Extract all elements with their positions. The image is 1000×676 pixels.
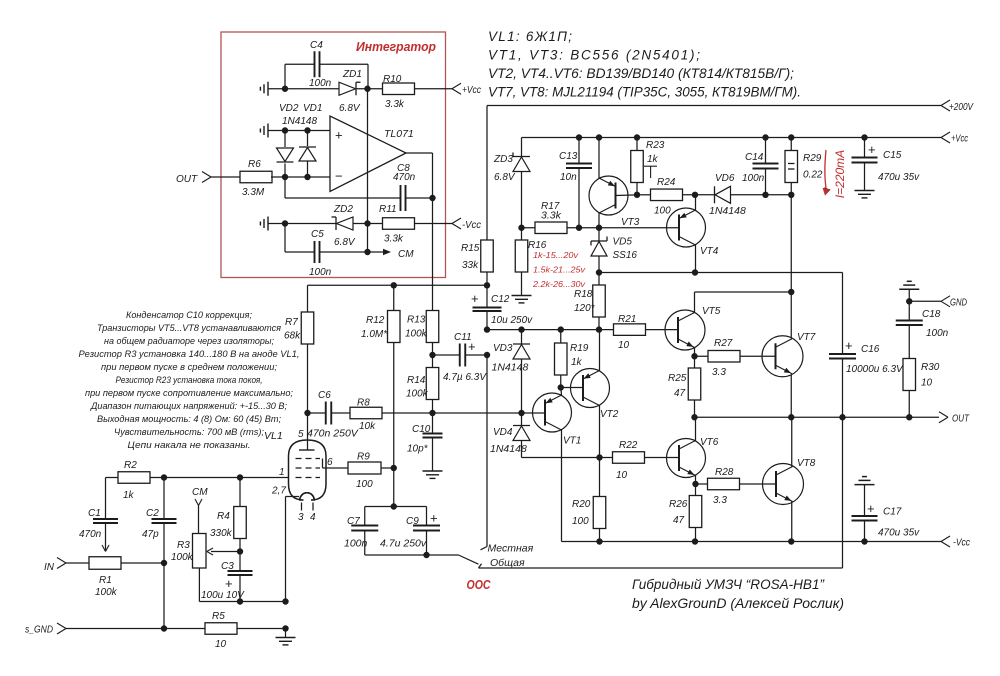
svg-text:10: 10 bbox=[616, 470, 628, 481]
svg-text:ZD2: ZD2 bbox=[333, 204, 353, 215]
svg-text:2,7: 2,7 bbox=[271, 486, 286, 497]
junction bbox=[237, 598, 243, 604]
capacitor C17 bbox=[852, 477, 921, 542]
svg-text:1N4148: 1N4148 bbox=[492, 362, 529, 374]
svg-text:OUT: OUT bbox=[952, 413, 970, 425]
ground (ZD2 row) bbox=[260, 217, 268, 231]
node -Vcc bbox=[941, 536, 971, 549]
svg-text:R13: R13 bbox=[407, 315, 426, 326]
wire +Vcc rail bbox=[522, 137, 942, 139]
transistor VT6 bbox=[667, 417, 719, 484]
svg-text:VD3: VD3 bbox=[493, 343, 513, 354]
svg-text:330k: 330k bbox=[210, 528, 233, 539]
svg-text:R11: R11 bbox=[379, 204, 397, 215]
svg-text:ООС: ООС bbox=[467, 578, 492, 592]
svg-text:I=220mA: I=220mA bbox=[833, 150, 847, 198]
svg-text:R14: R14 bbox=[407, 375, 426, 386]
svg-text:1k: 1k bbox=[647, 154, 659, 165]
svg-text:R10: R10 bbox=[383, 74, 402, 85]
capacitor C12 bbox=[471, 285, 533, 329]
wire +200V rail bbox=[487, 105, 941, 107]
svg-text:s_GND: s_GND bbox=[25, 624, 53, 636]
zener ZD3 bbox=[493, 138, 530, 228]
capacitor C3 bbox=[201, 552, 253, 602]
resistor R6 bbox=[240, 159, 272, 198]
tube grid pin 1 bbox=[279, 467, 285, 478]
svg-text:VT1: VT1 bbox=[563, 436, 581, 447]
zener ZD2 bbox=[332, 204, 356, 248]
wire bbox=[683, 194, 715, 196]
node OUT bbox=[939, 412, 970, 425]
svg-text:VD6: VD6 bbox=[715, 173, 735, 184]
transistor VT1 bbox=[522, 388, 582, 542]
svg-text:10u 250v: 10u 250v bbox=[491, 315, 533, 326]
svg-text:+: + bbox=[225, 576, 233, 591]
svg-text:100k: 100k bbox=[405, 329, 428, 340]
capacitor C18 bbox=[896, 301, 949, 358]
transistor VT2 bbox=[561, 330, 619, 458]
svg-text:+Vcc: +Vcc bbox=[951, 133, 969, 145]
capacitor C11 bbox=[433, 332, 488, 383]
svg-text:ZD3: ZD3 bbox=[493, 154, 513, 165]
svg-text:Транзисторы VТ5...VТ8 устанавл: Транзисторы VТ5...VТ8 устанавливаются bbox=[97, 323, 281, 334]
zener ZD1 bbox=[339, 69, 362, 114]
wire local feedback bbox=[481, 355, 488, 550]
resistor R24 bbox=[637, 177, 683, 217]
svg-text:на общем радиаторе через изоля: на общем радиаторе через изоляторы; bbox=[104, 336, 274, 347]
node CM (input to R3) bbox=[192, 487, 208, 534]
resistor R28 bbox=[696, 467, 740, 506]
svg-text:0.22: 0.22 bbox=[803, 170, 823, 181]
diode VD2 bbox=[277, 103, 299, 177]
svg-text:+200V: +200V bbox=[949, 101, 974, 113]
wire VT3 base row bbox=[567, 227, 679, 229]
potentiometer R3 bbox=[171, 534, 240, 569]
svg-text:R4: R4 bbox=[217, 511, 230, 522]
wire bbox=[356, 88, 383, 90]
svg-text:R2: R2 bbox=[124, 460, 137, 471]
svg-text:VT1, VT3: BC556 (2N5401);: VT1, VT3: BC556 (2N5401); bbox=[488, 48, 700, 63]
svg-text:-Vcc: -Vcc bbox=[462, 219, 482, 231]
svg-text:100k: 100k bbox=[171, 552, 194, 563]
svg-text:ZD1: ZD1 bbox=[342, 69, 362, 80]
resistor R4 bbox=[210, 478, 246, 552]
wire bbox=[211, 176, 240, 178]
wire (global feedback) bbox=[842, 417, 844, 568]
svg-text:1k: 1k bbox=[571, 357, 583, 368]
svg-text:при первом пуске сопротивление: при первом пуске сопротивление максималь… bbox=[85, 388, 293, 399]
current annotation I=220mA bbox=[823, 150, 848, 198]
wire bbox=[486, 272, 488, 285]
svg-text:OUT: OUT bbox=[176, 174, 198, 185]
svg-text:R30: R30 bbox=[921, 362, 940, 373]
junction bbox=[558, 384, 564, 390]
svg-text:R19: R19 bbox=[570, 343, 589, 354]
wire (op-amp output) bbox=[406, 153, 433, 198]
svg-text:470u 35v: 470u 35v bbox=[878, 528, 920, 539]
wire bbox=[238, 628, 286, 630]
svg-text:100n: 100n bbox=[926, 328, 949, 339]
wire bbox=[486, 106, 488, 241]
wire bbox=[381, 467, 394, 469]
svg-text:10: 10 bbox=[618, 340, 630, 351]
junction bbox=[282, 174, 311, 180]
label Общая bbox=[490, 557, 525, 569]
svg-text:Местная: Местная bbox=[488, 543, 534, 555]
capacitor C9 bbox=[365, 507, 440, 556]
svg-text:C10: C10 bbox=[412, 424, 431, 435]
wire bbox=[353, 223, 383, 225]
ground (ZD1 row) bbox=[260, 82, 268, 96]
wire bbox=[740, 355, 775, 357]
svg-text:Общая: Общая bbox=[490, 557, 525, 569]
node -Vcc (integrator) bbox=[452, 218, 482, 231]
junction bbox=[634, 192, 640, 198]
capacitor C10 bbox=[407, 413, 443, 471]
svg-text:47p: 47p bbox=[142, 529, 159, 540]
svg-text:1: 1 bbox=[279, 467, 285, 478]
wire bbox=[415, 223, 453, 225]
svg-text:IN: IN bbox=[44, 562, 55, 573]
tube cathode (pins 2,7) bbox=[271, 486, 299, 602]
svg-text:100: 100 bbox=[356, 479, 373, 490]
svg-text:100n: 100n bbox=[742, 173, 765, 184]
diode VD3 bbox=[492, 330, 531, 413]
tube anode (pin 5) bbox=[298, 413, 315, 450]
wire minus input row bbox=[271, 176, 330, 178]
transistor VT3 bbox=[589, 138, 640, 229]
svg-text:SS16: SS16 bbox=[613, 250, 638, 261]
svg-text:100: 100 bbox=[654, 206, 671, 217]
resistor R25 bbox=[668, 356, 701, 417]
junction bbox=[692, 481, 698, 487]
tube screen pin 6 bbox=[323, 457, 349, 468]
svg-text:4.7u 250v: 4.7u 250v bbox=[380, 538, 427, 550]
schottky VD5 bbox=[591, 228, 637, 273]
svg-text:R20: R20 bbox=[572, 499, 591, 510]
svg-text:+: + bbox=[471, 291, 479, 306]
svg-text:100n: 100n bbox=[344, 538, 368, 550]
svg-text:VD1: VD1 bbox=[303, 103, 322, 114]
potentiometer R1 bbox=[89, 557, 121, 598]
resistor R2 bbox=[106, 460, 151, 501]
junction bbox=[596, 454, 602, 460]
node OUT (left input arrow) bbox=[176, 172, 211, 186]
svg-text:10: 10 bbox=[215, 639, 227, 650]
svg-text:47: 47 bbox=[674, 388, 686, 399]
svg-text:100k: 100k bbox=[95, 587, 118, 598]
svg-text:3.3k: 3.3k bbox=[385, 99, 405, 110]
svg-text:R25: R25 bbox=[668, 373, 687, 384]
svg-text:10000u 6.3V: 10000u 6.3V bbox=[846, 364, 904, 375]
svg-text:VD2: VD2 bbox=[279, 103, 299, 114]
svg-text:R18: R18 bbox=[574, 289, 593, 300]
junction bbox=[304, 410, 310, 416]
svg-text:+: + bbox=[430, 511, 438, 526]
junction bbox=[364, 86, 370, 92]
svg-text:10n: 10n bbox=[560, 172, 577, 183]
svg-text:Интегратор: Интегратор bbox=[356, 39, 436, 54]
resistor R11 bbox=[379, 204, 415, 245]
svg-text:R27: R27 bbox=[714, 338, 733, 349]
svg-text:R22: R22 bbox=[619, 440, 638, 451]
resistor R17 bbox=[522, 201, 568, 234]
svg-text:VT2, VT4..VT6: BD139/BD140 (КТ: VT2, VT4..VT6: BD139/BD140 (КТ814/КТ815В… bbox=[488, 66, 794, 81]
junction bbox=[518, 410, 524, 416]
transistor VT7 bbox=[762, 195, 816, 417]
junction bbox=[691, 414, 912, 420]
svg-text:C13: C13 bbox=[559, 151, 578, 162]
svg-text:4.7µ 6.3V: 4.7µ 6.3V bbox=[443, 372, 487, 383]
svg-text:R23: R23 bbox=[646, 140, 665, 151]
wire bbox=[393, 468, 395, 507]
svg-text:470n: 470n bbox=[393, 172, 416, 183]
junction bbox=[429, 352, 435, 358]
svg-text:10p*: 10p* bbox=[407, 444, 429, 455]
svg-text:C3: C3 bbox=[221, 561, 234, 572]
resistor R8 bbox=[350, 398, 382, 433]
svg-text:VD4: VD4 bbox=[493, 427, 513, 438]
svg-text:6.8V: 6.8V bbox=[339, 103, 361, 114]
svg-text:33k: 33k bbox=[462, 260, 479, 271]
svg-text:470u 35v: 470u 35v bbox=[878, 172, 920, 183]
junction bbox=[518, 225, 524, 231]
svg-text:C6: C6 bbox=[318, 390, 331, 401]
ground (C15) bbox=[855, 191, 875, 198]
node CM (output arrow) bbox=[368, 249, 415, 260]
junction bbox=[161, 560, 167, 566]
svg-text:Резистор R23 установка тока по: Резистор R23 установка тока покоя, bbox=[116, 375, 263, 386]
tube heater pins 3 4 bbox=[298, 503, 316, 524]
svg-text:TL071: TL071 bbox=[384, 128, 414, 140]
ground (input) bbox=[276, 629, 296, 645]
svg-text:6: 6 bbox=[327, 457, 333, 468]
integrator box frame bbox=[221, 32, 446, 278]
wire bbox=[645, 457, 680, 459]
junction bbox=[282, 598, 288, 631]
resistor R10 bbox=[383, 74, 415, 110]
wire B+ row bbox=[308, 284, 488, 286]
label ООС bbox=[467, 578, 492, 592]
integrator title label bbox=[356, 39, 436, 54]
svg-text:R8: R8 bbox=[357, 398, 370, 409]
svg-text:VT6: VT6 bbox=[700, 437, 719, 448]
junction bbox=[423, 552, 429, 558]
svg-text:GND: GND bbox=[950, 297, 967, 309]
svg-text:3.3: 3.3 bbox=[713, 495, 727, 506]
svg-text:3.3M: 3.3M bbox=[242, 187, 265, 198]
svg-text:Конденсатор С10 коррекция;: Конденсатор С10 коррекция; bbox=[126, 310, 252, 321]
diode VD6 bbox=[709, 173, 791, 217]
junction bbox=[391, 282, 491, 288]
svg-text:R12: R12 bbox=[366, 315, 385, 326]
svg-text:6.8V: 6.8V bbox=[494, 172, 516, 183]
capacitor C16 bbox=[829, 273, 904, 418]
node IN bbox=[44, 558, 89, 574]
svg-text:+: + bbox=[845, 338, 853, 353]
svg-text:R15: R15 bbox=[461, 243, 480, 254]
svg-text:CM: CM bbox=[398, 249, 414, 260]
capacitor C5 bbox=[285, 224, 368, 279]
svg-text:R3: R3 bbox=[177, 540, 190, 551]
junction bbox=[576, 225, 602, 231]
svg-text:by AlexGrounD (Алексей Рослик): by AlexGrounD (Алексей Рослик) bbox=[632, 596, 844, 611]
svg-text:470n 250V: 470n 250V bbox=[307, 428, 359, 440]
diode VD4 bbox=[490, 413, 613, 458]
transistor VT5 bbox=[665, 292, 791, 356]
svg-text:R24: R24 bbox=[657, 177, 676, 188]
svg-text:1N4148: 1N4148 bbox=[709, 205, 746, 217]
resistor R19 bbox=[555, 330, 589, 388]
node +Vcc (integrator) bbox=[452, 83, 482, 96]
svg-text:Гибридный УМЗЧ “ROSA-HB1”: Гибридный УМЗЧ “ROSA-HB1” bbox=[632, 577, 825, 592]
svg-text:10k: 10k bbox=[359, 421, 376, 432]
svg-text:C12: C12 bbox=[491, 294, 510, 305]
svg-text:2.2k-26...30v: 2.2k-26...30v bbox=[532, 280, 586, 289]
svg-text:3.3k: 3.3k bbox=[384, 234, 404, 245]
svg-text:Выходная мощность: 4 (8) Ом: 6: Выходная мощность: 4 (8) Ом: 60 (45) Вт; bbox=[97, 414, 281, 425]
svg-text:100n: 100n bbox=[309, 78, 332, 89]
capacitor C4 bbox=[285, 40, 368, 89]
svg-text:при первом пуске в среднем пол: при первом пуске в среднем положении; bbox=[101, 362, 277, 373]
svg-text:C9: C9 bbox=[406, 516, 419, 527]
svg-text:1N4148: 1N4148 bbox=[490, 443, 527, 455]
svg-text:+: + bbox=[468, 339, 476, 354]
junction bbox=[576, 134, 868, 140]
wire global feedback line bbox=[479, 564, 843, 568]
junction bbox=[391, 503, 397, 509]
junction bbox=[282, 86, 288, 92]
svg-text:100n: 100n bbox=[309, 267, 332, 278]
node +200V bbox=[941, 100, 974, 113]
junction bbox=[691, 289, 794, 360]
capacitor C2 bbox=[142, 478, 177, 564]
svg-text:C18: C18 bbox=[922, 309, 941, 320]
resistor R26 bbox=[669, 484, 702, 542]
parts list text bbox=[488, 29, 801, 100]
svg-text:C7: C7 bbox=[347, 516, 360, 527]
wire bbox=[415, 88, 453, 90]
svg-text:R29: R29 bbox=[803, 153, 822, 164]
label Местная bbox=[488, 543, 534, 555]
svg-text:3.3: 3.3 bbox=[712, 367, 726, 378]
diode VD1 bbox=[282, 103, 322, 177]
junction bbox=[282, 220, 288, 226]
resistor R12 bbox=[361, 285, 400, 467]
svg-text:C4: C4 bbox=[310, 40, 323, 51]
svg-text:C14: C14 bbox=[745, 152, 764, 163]
junction bbox=[596, 269, 698, 275]
capacitor C15 bbox=[852, 138, 921, 191]
svg-text:100: 100 bbox=[572, 516, 589, 527]
svg-text:−: − bbox=[335, 169, 343, 184]
junction bbox=[391, 465, 397, 471]
svg-text:100k: 100k bbox=[406, 389, 429, 400]
junction bbox=[429, 195, 435, 201]
notes text bbox=[79, 310, 300, 451]
svg-text:1N4148: 1N4148 bbox=[282, 116, 317, 127]
capacitor C14 bbox=[742, 138, 779, 195]
svg-text:Резистор R3 установка 140...18: Резистор R3 установка 140...180 В на ано… bbox=[79, 349, 300, 360]
svg-text:VT7: VT7 bbox=[797, 332, 816, 343]
wire bbox=[646, 329, 679, 331]
svg-text:3: 3 bbox=[298, 512, 304, 523]
junction bbox=[692, 192, 698, 198]
capacitor C13 bbox=[559, 138, 592, 228]
svg-text:1.0M*: 1.0M* bbox=[361, 329, 388, 340]
svg-text:68k: 68k bbox=[284, 331, 301, 342]
wire anode/bias rail bbox=[487, 329, 614, 331]
svg-text:Диапазон питающих напряжений:: Диапазон питающих напряжений: +-15...30 … bbox=[90, 401, 287, 412]
wire bbox=[268, 223, 336, 225]
junction bbox=[429, 410, 435, 416]
wire grid row bbox=[150, 477, 289, 479]
svg-text:R1: R1 bbox=[99, 575, 112, 586]
svg-text:VT8: VT8 bbox=[797, 458, 816, 469]
resistor R27 bbox=[695, 338, 741, 378]
capacitor C6 bbox=[307, 390, 359, 440]
svg-text:R6: R6 bbox=[248, 159, 261, 170]
node GND bbox=[899, 281, 967, 308]
tube grids bbox=[296, 459, 323, 478]
wire bbox=[240, 601, 286, 603]
svg-text:-Vcc: -Vcc bbox=[953, 537, 971, 549]
transistor VT4 bbox=[667, 195, 719, 273]
node s_GND bbox=[25, 623, 205, 636]
wire bbox=[163, 563, 165, 629]
resistor R13 bbox=[405, 198, 439, 355]
svg-text:+: + bbox=[335, 128, 343, 143]
svg-text:5: 5 bbox=[298, 429, 304, 440]
junction bbox=[596, 538, 867, 544]
ground (R16) bbox=[512, 296, 532, 303]
op-amp U1 TL071 bbox=[330, 116, 414, 192]
resistor R7 bbox=[284, 285, 314, 413]
tube VL1 envelope bbox=[264, 430, 326, 500]
wire R3 bottom bbox=[199, 568, 240, 602]
trimmer R23 bbox=[631, 138, 665, 195]
ground (op-amp + input) bbox=[260, 124, 268, 138]
node +Vcc bbox=[941, 132, 969, 145]
svg-text:1.5k-21...25v: 1.5k-21...25v bbox=[533, 266, 586, 275]
svg-text:VT3: VT3 bbox=[621, 217, 640, 228]
svg-text:1k-15...20v: 1k-15...20v bbox=[533, 251, 579, 260]
wire OUT rail bbox=[695, 416, 940, 418]
junction bbox=[364, 249, 370, 255]
svg-text:R9: R9 bbox=[357, 452, 370, 463]
svg-text:VT2: VT2 bbox=[600, 409, 619, 420]
wire (op-amp supply vertical) bbox=[367, 89, 369, 252]
svg-text:CM: CM bbox=[192, 487, 208, 498]
svg-text:R26: R26 bbox=[669, 499, 688, 510]
wire plus input row bbox=[268, 130, 330, 132]
resistor R18 bbox=[574, 273, 605, 330]
resistor R9 bbox=[348, 452, 381, 491]
wire bbox=[382, 412, 522, 414]
resistor R14 bbox=[406, 355, 439, 413]
svg-text:C17: C17 bbox=[883, 507, 902, 518]
junction bbox=[484, 352, 490, 358]
svg-text:C5: C5 bbox=[311, 229, 324, 240]
transistor VT8 bbox=[763, 417, 816, 541]
svg-text:Цепи накала не показаны.: Цепи накала не показаны. bbox=[128, 440, 251, 451]
resistor R15 bbox=[461, 240, 493, 272]
svg-text:120*: 120* bbox=[574, 303, 596, 314]
svg-text:Чувствительность: 700 мВ (rms): Чувствительность: 700 мВ (rms); bbox=[114, 427, 264, 438]
svg-text:+: + bbox=[868, 142, 876, 157]
switch (NFB select) bbox=[427, 555, 479, 564]
junction bbox=[906, 298, 912, 304]
